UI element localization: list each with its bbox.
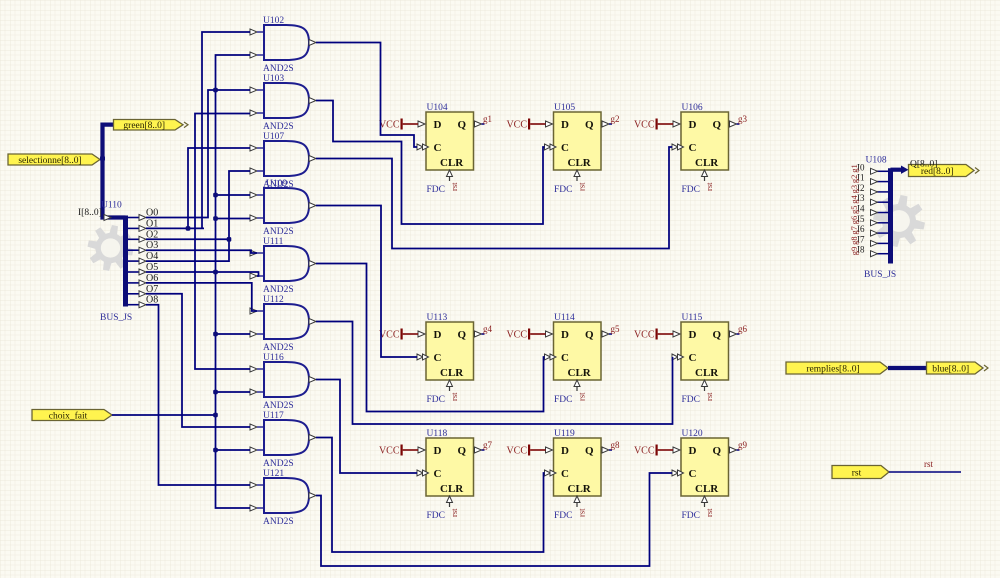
svg-text:rst: rst [449, 508, 459, 517]
svg-text:C: C [689, 352, 697, 364]
svg-text:g7: g7 [483, 440, 493, 450]
svg-text:rst: rst [704, 182, 714, 191]
svg-text:AND2S: AND2S [263, 285, 294, 295]
svg-text:VCC: VCC [634, 446, 655, 457]
svg-text:g9: g9 [738, 440, 748, 450]
svg-text:D: D [689, 445, 697, 457]
svg-text:FDC: FDC [427, 185, 445, 195]
svg-text:g3: g3 [849, 185, 859, 194]
svg-text:FDC: FDC [427, 511, 445, 521]
svg-text:U102: U102 [263, 16, 284, 26]
svg-text:g3: g3 [738, 114, 748, 124]
svg-text:Q: Q [458, 329, 467, 341]
svg-text:choix_fait: choix_fait [49, 410, 88, 421]
svg-text:AND2S: AND2S [263, 459, 294, 469]
svg-text:g4: g4 [483, 324, 493, 334]
svg-text:g1: g1 [849, 164, 859, 173]
svg-text:rst: rst [449, 392, 459, 401]
svg-text:Q: Q [458, 119, 467, 131]
svg-text:U111: U111 [263, 237, 284, 247]
svg-text:CLR: CLR [695, 483, 719, 495]
svg-text:g2: g2 [611, 114, 620, 124]
svg-text:FDC: FDC [682, 395, 700, 405]
svg-text:g9: g9 [849, 247, 859, 256]
svg-text:VCC: VCC [379, 330, 400, 341]
svg-text:FDC: FDC [554, 395, 572, 405]
svg-text:Q: Q [585, 445, 594, 457]
svg-text:Q: Q [713, 329, 722, 341]
svg-text:rst: rst [924, 459, 933, 469]
svg-text:g5: g5 [849, 206, 859, 215]
svg-text:D: D [434, 445, 442, 457]
svg-text:VCC: VCC [379, 446, 400, 457]
svg-text:D: D [434, 119, 442, 131]
svg-text:D: D [561, 329, 569, 341]
svg-text:U113: U113 [427, 313, 448, 323]
svg-text:rst: rst [577, 392, 587, 401]
svg-text:g1: g1 [483, 114, 492, 124]
svg-text:C: C [561, 142, 569, 154]
svg-text:FDC: FDC [554, 511, 572, 521]
svg-text:U104: U104 [427, 103, 448, 113]
svg-text:BUS_JS: BUS_JS [100, 313, 132, 323]
svg-text:selectionne[8..0]: selectionne[8..0] [18, 156, 81, 166]
svg-text:remplies[8..0]: remplies[8..0] [806, 364, 859, 374]
svg-text:VCC: VCC [506, 446, 527, 457]
svg-text:CLR: CLR [440, 367, 464, 379]
svg-text:C: C [434, 142, 442, 154]
svg-text:Q: Q [585, 119, 594, 131]
svg-text:U118: U118 [427, 429, 448, 439]
svg-text:AND2S: AND2S [263, 227, 294, 237]
svg-text:BUS_JS: BUS_JS [864, 270, 896, 280]
svg-text:CLR: CLR [695, 157, 719, 169]
svg-text:g7: g7 [849, 226, 859, 235]
svg-text:CLR: CLR [440, 157, 464, 169]
svg-text:I[8..0]: I[8..0] [78, 208, 102, 218]
svg-text:g8: g8 [849, 236, 859, 245]
svg-text:VCC: VCC [506, 120, 527, 131]
svg-text:D: D [561, 445, 569, 457]
svg-text:AND2S: AND2S [263, 343, 294, 353]
svg-text:VCC: VCC [634, 120, 655, 131]
svg-text:rst: rst [852, 468, 862, 478]
svg-text:AND2S: AND2S [263, 401, 294, 411]
svg-text:VCC: VCC [506, 330, 527, 341]
svg-text:U115: U115 [682, 313, 703, 323]
svg-text:rst: rst [577, 508, 587, 517]
svg-text:g2: g2 [849, 175, 859, 184]
svg-text:VCC: VCC [379, 120, 400, 131]
svg-text:U105: U105 [554, 103, 575, 113]
svg-text:U114: U114 [554, 313, 575, 323]
svg-text:U119: U119 [554, 429, 575, 439]
svg-text:C: C [561, 468, 569, 480]
svg-text:U116: U116 [263, 353, 284, 363]
svg-text:VCC: VCC [634, 330, 655, 341]
svg-text:C: C [434, 468, 442, 480]
svg-text:D: D [689, 119, 697, 131]
svg-text:C: C [689, 468, 697, 480]
svg-text:U110: U110 [101, 201, 122, 211]
svg-text:CLR: CLR [440, 483, 464, 495]
svg-text:Q: Q [713, 119, 722, 131]
svg-text:U108: U108 [866, 156, 887, 166]
svg-text:rst: rst [577, 182, 587, 191]
svg-text:U112: U112 [263, 295, 284, 305]
svg-text:CLR: CLR [695, 367, 719, 379]
svg-text:FDC: FDC [554, 185, 572, 195]
svg-text:rst: rst [704, 392, 714, 401]
svg-text:Q: Q [713, 445, 722, 457]
svg-text:AND2S: AND2S [263, 64, 294, 74]
svg-text:Q: Q [585, 329, 594, 341]
svg-text:g5: g5 [611, 324, 621, 334]
svg-text:D: D [689, 329, 697, 341]
svg-text:g4: g4 [849, 194, 859, 203]
svg-text:C: C [434, 352, 442, 364]
svg-text:U103: U103 [263, 74, 284, 84]
svg-text:CLR: CLR [568, 483, 592, 495]
svg-text:C: C [689, 142, 697, 154]
svg-text:FDC: FDC [682, 511, 700, 521]
svg-text:AND2S: AND2S [263, 517, 294, 527]
svg-text:D: D [561, 119, 569, 131]
svg-text:FDC: FDC [682, 185, 700, 195]
svg-text:g8: g8 [611, 440, 621, 450]
svg-text:AND2S: AND2S [263, 122, 294, 132]
svg-text:green[8..0]: green[8..0] [123, 121, 165, 131]
svg-text:FDC: FDC [427, 395, 445, 405]
svg-text:D: D [434, 329, 442, 341]
svg-text:U117: U117 [263, 411, 284, 421]
svg-text:g6: g6 [849, 216, 859, 225]
svg-text:rst: rst [449, 182, 459, 191]
svg-text:C: C [561, 352, 569, 364]
svg-text:blue[8..0]: blue[8..0] [932, 364, 969, 374]
svg-text:U120: U120 [682, 429, 703, 439]
svg-text:Q: Q [458, 445, 467, 457]
svg-text:CLR: CLR [568, 157, 592, 169]
svg-text:U107: U107 [263, 132, 284, 142]
svg-text:U109: U109 [266, 179, 287, 189]
svg-text:g6: g6 [738, 324, 748, 334]
svg-text:U106: U106 [682, 103, 703, 113]
svg-text:U121: U121 [263, 469, 284, 479]
svg-text:rst: rst [704, 508, 714, 517]
svg-text:CLR: CLR [568, 367, 592, 379]
svg-text:Q[8..0]: Q[8..0] [910, 160, 937, 170]
